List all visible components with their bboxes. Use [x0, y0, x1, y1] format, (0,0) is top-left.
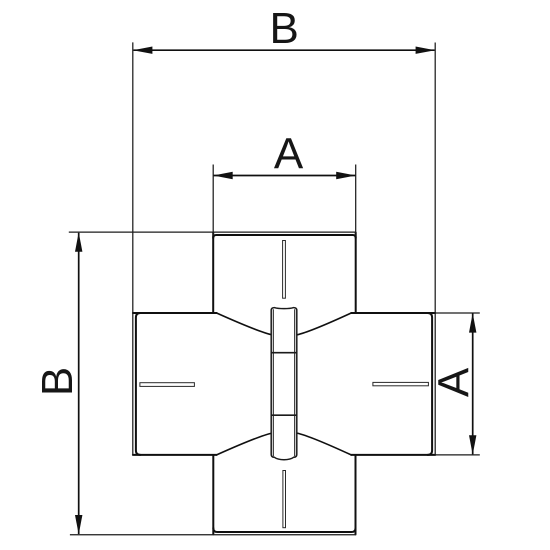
- svg-text:B: B: [270, 4, 299, 53]
- svg-text:A: A: [430, 367, 479, 397]
- svg-text:B: B: [33, 367, 82, 396]
- svg-text:A: A: [274, 130, 304, 179]
